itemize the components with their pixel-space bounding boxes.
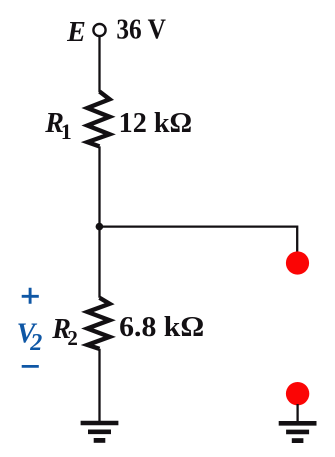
svg-text:2: 2 — [29, 330, 42, 356]
wire: R2 bottom to ground — [98, 349, 100, 422]
svg-text:E: E — [66, 17, 86, 48]
wire: right corner down to probe dot — [296, 226, 298, 256]
svg-text:1: 1 — [61, 119, 72, 144]
svg-text:12 kΩ: 12 kΩ — [119, 107, 193, 139]
terminal (open circle) of source E — [93, 24, 105, 36]
red probe dot (top, at node potential) — [286, 251, 309, 274]
svg-text:6.8 kΩ: 6.8 kΩ — [119, 311, 204, 343]
polarity minus sign (blue) — [22, 365, 39, 368]
resistor R1 (zigzag) — [87, 92, 109, 147]
svg-text:36 V: 36 V — [116, 13, 166, 45]
svg-text:2: 2 — [67, 326, 78, 350]
ground symbol (right) — [279, 423, 317, 440]
node junction dot — [96, 223, 104, 231]
ground symbol (left) — [81, 423, 119, 440]
wire: terminal to R1 top — [98, 37, 100, 92]
wire: node to right corner — [100, 225, 298, 227]
polarity plus sign (blue) — [22, 288, 39, 304]
resistor R2 (zigzag) — [87, 298, 109, 349]
red probe dot (bottom, at ground potential) — [286, 382, 309, 405]
wire: bottom probe dot to right ground — [296, 404, 298, 422]
wire: R1 bottom through node to R2 top — [98, 146, 100, 297]
